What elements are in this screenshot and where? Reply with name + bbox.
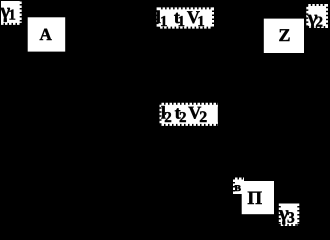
svg-text:A: A xyxy=(39,25,52,44)
label l2 t2 V2 dashed bottom edge xyxy=(162,122,218,126)
svg-text:2: 2 xyxy=(179,110,187,126)
node A box xyxy=(28,17,65,51)
label gamma3 text xyxy=(278,201,295,227)
svg-text:Z: Z xyxy=(278,25,290,45)
svg-text:2: 2 xyxy=(316,14,324,30)
svg-text:1: 1 xyxy=(8,8,16,24)
label l2 t2 V2 text xyxy=(161,103,207,126)
label v dashed top edge xyxy=(235,178,244,182)
label gamma1 dashed right edge xyxy=(18,2,22,23)
label l1 t1 V1 box xyxy=(159,9,212,26)
label v box xyxy=(235,180,244,195)
label l2 t2 V2 dashed top edge xyxy=(162,103,218,107)
label l1 t1 V1 text xyxy=(156,7,205,30)
label gamma3 dashed bottom edge xyxy=(281,222,298,226)
label l1 t1 V1 dashed border xyxy=(159,9,212,26)
label gamma3 dashed left edge xyxy=(279,204,283,225)
label gamma1 text xyxy=(0,0,16,24)
label gamma2 text xyxy=(307,5,323,30)
svg-text:2: 2 xyxy=(164,110,172,126)
svg-text:1: 1 xyxy=(178,14,186,30)
label gamma2 box xyxy=(308,6,326,26)
label l2 t2 V2 dashed left edge xyxy=(160,105,164,124)
label gamma1 dashed bottom edge xyxy=(1,21,20,25)
svg-text:1: 1 xyxy=(197,14,205,30)
svg-text:3: 3 xyxy=(287,210,295,227)
svg-text:2: 2 xyxy=(199,109,207,126)
svg-text:в: в xyxy=(234,180,241,194)
label v dashed left edge xyxy=(233,180,237,195)
node Pi box xyxy=(242,181,274,214)
node Z box xyxy=(264,19,304,53)
svg-text:1: 1 xyxy=(160,14,168,30)
svg-text:Π: Π xyxy=(247,188,262,209)
label gamma3 box xyxy=(281,204,298,225)
label gamma3 dashed right edge xyxy=(295,204,299,225)
label gamma2 dashed border xyxy=(308,6,326,26)
label l2 t2 V2 box xyxy=(162,105,218,124)
label gamma1 box xyxy=(1,1,20,23)
